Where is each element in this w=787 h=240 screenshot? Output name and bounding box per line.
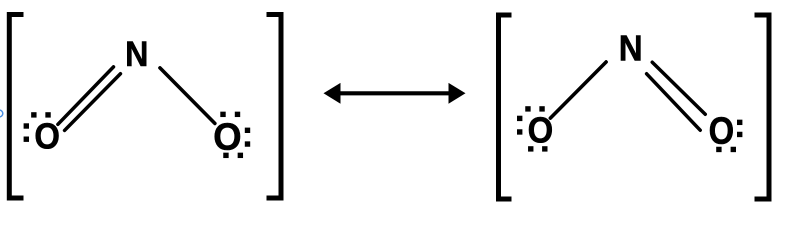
lone pair dots, right of right O (structure 2) — [737, 120, 742, 137]
svg-text:N: N — [125, 36, 148, 75]
single bond N-O (structure 2) — [550, 62, 606, 118]
svg-text:O: O — [528, 111, 554, 151]
single bond N-O (structure 1) — [160, 68, 215, 124]
double bond N=O (structure 2, lower line) — [647, 74, 701, 130]
right bracket of structure 2 — [755, 15, 770, 199]
resonance double-headed arrow — [324, 83, 466, 104]
lone pair dots, bottom of right O (structure 1) — [223, 153, 243, 158]
double bond N=O (structure 1, upper line) — [58, 67, 114, 124]
lone pair dots, left of left O (structure 2) — [517, 116, 522, 135]
svg-text:O: O — [709, 109, 735, 152]
lone pair dots, bottom of right O (structure 2) — [716, 147, 736, 152]
left bracket of structure 1 — [9, 15, 23, 199]
svg-text:O: O — [213, 115, 241, 158]
double bond N=O (structure 2, upper line) — [652, 62, 705, 114]
double bond N=O (structure 1, lower line) — [65, 74, 121, 131]
svg-text:N: N — [619, 29, 643, 69]
lone pair dots, right of right O (structure 1) — [245, 128, 250, 147]
lone pair dots, left of left O (structure 1) — [24, 123, 29, 142]
lone pair dots, top of right O (structure 1) — [220, 112, 240, 117]
left bracket of structure 2 — [499, 15, 512, 199]
lone pair dots, top of left O (structure 2) — [525, 106, 545, 111]
lone pair dots, top of left O (structure 1) — [31, 112, 51, 117]
right bracket of structure 1 — [267, 15, 282, 199]
clipped blue circle bullet at left edge — [0, 110, 3, 117]
lone pair dots, bottom of left O (structure 2) — [528, 146, 547, 151]
svg-text:O: O — [34, 117, 60, 157]
